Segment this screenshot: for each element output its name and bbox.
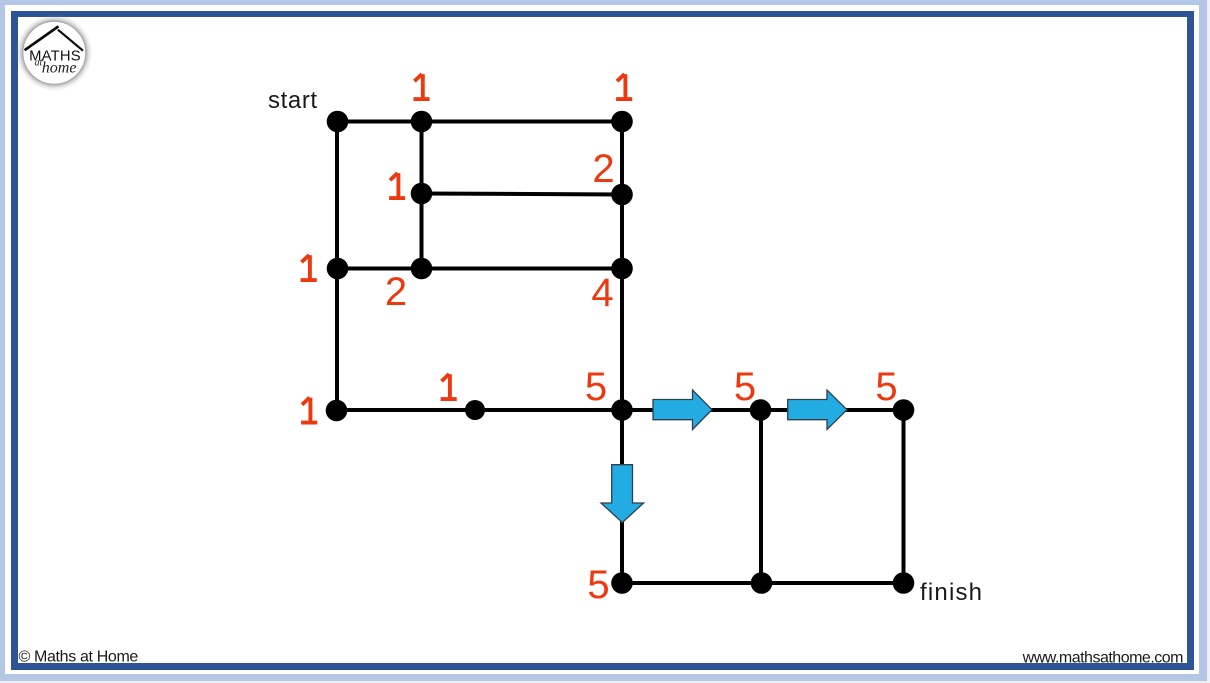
node K — [611, 399, 633, 421]
arrow right K to L — [653, 390, 712, 430]
label 1 left of node D — [389, 173, 405, 198]
wire M-P x=903.5 — [902, 410, 906, 583]
wire left column A-F-I x=337 — [335, 122, 339, 411]
label 1 above node B — [414, 74, 430, 99]
arrow right L to M — [788, 390, 847, 430]
label 1 above node C — [616, 74, 632, 99]
label 1 left of node F — [301, 255, 317, 280]
wire row3 F-G-H y=268.5 — [337, 267, 622, 271]
wire L-O x=761 — [759, 410, 763, 583]
node I — [326, 400, 348, 422]
label 1 left of node I — [301, 398, 317, 423]
node C — [611, 111, 633, 133]
label 1 above node J — [441, 374, 457, 399]
logo roof left — [25, 26, 59, 50]
wire row4 I-J-K-L-M y=410 — [337, 408, 904, 412]
svg-text:finish: finish — [920, 579, 983, 606]
logo circle — [23, 22, 86, 85]
wire D-E y=194 — [422, 194, 623, 195]
logo roof right — [58, 30, 83, 51]
node B — [411, 111, 433, 133]
wire B-D-G x=421.5 — [420, 122, 424, 269]
node N — [611, 572, 633, 594]
svg-text:5: 5 — [734, 365, 756, 409]
node L — [750, 399, 772, 421]
node O — [751, 572, 773, 594]
arrow down K to N — [601, 465, 644, 523]
svg-text:start: start — [268, 87, 318, 114]
wire top row A-B-C y=121.5 — [337, 120, 622, 124]
node J — [465, 400, 485, 420]
svg-text:2: 2 — [592, 147, 614, 191]
node F — [327, 258, 349, 280]
wire bottom row N-O-P y=583 — [622, 581, 904, 585]
svg-text:5: 5 — [875, 365, 897, 409]
svg-text:© Maths at Home: © Maths at Home — [19, 649, 139, 666]
node A start — [327, 111, 349, 133]
logo shadow — [16, 14, 93, 91]
node D — [411, 183, 433, 205]
node P finish — [893, 572, 915, 594]
svg-text:2: 2 — [385, 270, 407, 314]
svg-text:5: 5 — [585, 365, 607, 409]
node G — [411, 258, 433, 280]
svg-text:5: 5 — [587, 563, 609, 607]
svg-text:www.mathsathome.com: www.mathsathome.com — [1022, 650, 1184, 667]
svg-text:home: home — [42, 60, 77, 77]
wire C-E-H-K-N x=622 — [620, 122, 624, 584]
node H — [611, 258, 633, 280]
node M — [893, 399, 915, 421]
svg-text:4: 4 — [591, 271, 613, 315]
node E — [611, 184, 633, 206]
